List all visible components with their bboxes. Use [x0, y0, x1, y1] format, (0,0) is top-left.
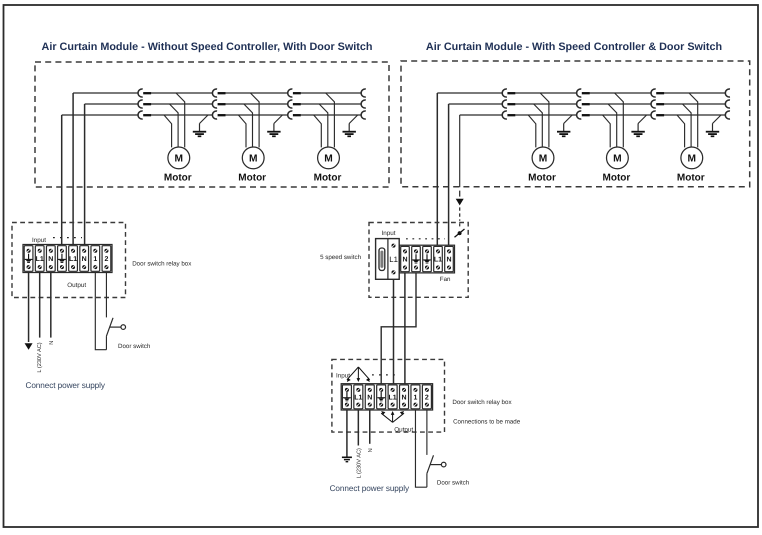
svg-text:Connect power supply: Connect power supply	[330, 484, 410, 493]
wire motor N	[319, 104, 328, 147]
svg-text:M: M	[539, 154, 548, 165]
connector	[502, 89, 515, 97]
connector	[212, 100, 225, 108]
terminal block fan	[400, 245, 455, 273]
5 speed switch block	[376, 239, 400, 280]
connector	[502, 111, 515, 119]
wire door-switch 2 (right)	[426, 410, 428, 455]
svg-text:M: M	[249, 154, 258, 165]
wire bus E right	[460, 114, 503, 116]
motor M	[168, 147, 190, 169]
connector	[725, 100, 730, 108]
wire motor L	[326, 93, 335, 147]
motor M	[242, 147, 264, 169]
connector	[212, 111, 225, 119]
svg-text:Motor: Motor	[677, 172, 705, 183]
wire bus L1 right	[437, 92, 502, 94]
svg-text:L1: L1	[69, 256, 77, 263]
connector	[651, 111, 664, 119]
svg-text:Input: Input	[32, 237, 46, 244]
connector	[651, 100, 664, 108]
wire motor E	[238, 115, 246, 147]
connector	[725, 89, 730, 97]
connector	[288, 100, 301, 108]
dotted divider right relay	[372, 374, 398, 376]
svg-text:L1: L1	[389, 394, 397, 401]
wire E speed to relay (jog)	[381, 273, 416, 384]
module box right (dashed)	[401, 61, 750, 187]
wire motor E	[164, 115, 172, 147]
svg-text:N: N	[446, 257, 451, 264]
svg-text:Motor: Motor	[603, 172, 631, 183]
wire door-switch 1 (left)	[95, 273, 106, 350]
connector	[361, 111, 366, 119]
connector	[361, 89, 366, 97]
wire N down to speed controller	[448, 104, 450, 245]
dotted divider	[53, 237, 82, 239]
wire door-switch 2 (left)	[105, 273, 107, 318]
wire E down to relay box	[61, 115, 63, 245]
ground	[706, 124, 719, 137]
dashed stub inside speed box	[459, 223, 461, 228]
wire motor L	[689, 93, 698, 147]
svg-text:Air Curtain Module - With Spee: Air Curtain Module - With Speed Controll…	[426, 41, 722, 53]
wire N speed to relay	[404, 273, 406, 384]
svg-text:5 speed switch: 5 speed switch	[320, 254, 361, 261]
svg-text:L (230V AC): L (230V AC)	[36, 342, 43, 372]
module box left (dashed)	[35, 62, 389, 187]
connection arrows input	[347, 367, 370, 382]
wire motor N	[534, 104, 543, 147]
svg-text:L1: L1	[354, 394, 362, 401]
ground	[343, 124, 356, 137]
svg-text:L1: L1	[36, 256, 44, 263]
svg-text:Connections to be made: Connections to be made	[453, 418, 521, 425]
svg-text:Motor: Motor	[164, 172, 192, 183]
ground tap wire	[200, 115, 209, 124]
svg-text:Connect power supply: Connect power supply	[26, 381, 106, 390]
wire motor N	[683, 104, 692, 147]
motor M	[318, 147, 340, 169]
connection arrows output	[381, 411, 404, 422]
wire motor E	[603, 115, 611, 147]
connector	[138, 100, 151, 108]
wire N supply	[50, 273, 52, 338]
door switch left	[106, 318, 125, 350]
wire bus N left	[85, 103, 139, 105]
connector	[138, 111, 151, 119]
wire E down (to be connected)	[459, 115, 461, 187]
wire earth supply right	[346, 410, 348, 457]
svg-text:Output: Output	[394, 427, 413, 434]
connector	[502, 100, 515, 108]
wire door-switch 1 (right)	[415, 410, 426, 487]
svg-text:M: M	[175, 154, 184, 165]
ground	[267, 124, 280, 137]
svg-text:Motor: Motor	[528, 172, 556, 183]
svg-text:Motor: Motor	[238, 172, 266, 183]
svg-text:N: N	[49, 341, 55, 345]
ground	[193, 124, 206, 137]
arrow power supply earth	[25, 343, 33, 350]
wire motor E	[528, 115, 536, 147]
svg-text:Input: Input	[382, 230, 396, 237]
terminal block left relay	[23, 245, 112, 273]
svg-text:L1: L1	[389, 255, 398, 264]
svg-text:Air Curtain Module - Without S: Air Curtain Module - Without Speed Contr…	[42, 41, 373, 53]
wire N down to relay box	[84, 104, 86, 245]
connector	[212, 89, 225, 97]
motor M	[607, 147, 629, 169]
terminal block right relay	[341, 384, 432, 410]
svg-text:1: 1	[93, 256, 97, 263]
speed controller box (dashed)	[369, 223, 468, 298]
wire N supply right	[369, 410, 371, 444]
ground	[631, 124, 644, 137]
ground tap wire	[274, 115, 283, 124]
svg-text:Door switch: Door switch	[437, 480, 470, 487]
connector	[577, 89, 590, 97]
annotation arrow connection	[455, 229, 465, 237]
door switch relay box right (dashed)	[332, 359, 445, 432]
svg-text:N: N	[367, 394, 372, 401]
dotted divider speed	[406, 238, 445, 240]
dash E below box	[459, 191, 461, 197]
ground tap wire	[713, 115, 722, 124]
connector	[577, 111, 590, 119]
connector	[651, 89, 664, 97]
wire motor N	[170, 104, 179, 147]
wire motor N	[608, 104, 617, 147]
motor M	[681, 147, 703, 169]
svg-text:N: N	[368, 448, 374, 452]
svg-text:M: M	[613, 154, 622, 165]
wire motor E	[314, 115, 322, 147]
wire earth supply	[28, 273, 30, 343]
door switch relay box left (dashed)	[12, 223, 126, 298]
wire L supply	[39, 273, 41, 338]
svg-text:N: N	[82, 256, 87, 263]
svg-text:2: 2	[104, 256, 108, 263]
wire motor L	[176, 93, 185, 147]
connector	[288, 111, 301, 119]
door switch right	[427, 455, 446, 487]
dashed continuation E	[459, 207, 461, 220]
wire motor L	[250, 93, 259, 147]
svg-text:Fan: Fan	[440, 276, 451, 283]
ground power supply	[342, 457, 352, 461]
svg-text:1: 1	[414, 394, 418, 401]
wire motor E	[677, 115, 685, 147]
wire bus E left	[62, 114, 138, 116]
connector	[725, 111, 730, 119]
svg-text:M: M	[688, 154, 697, 165]
ground tap wire	[349, 115, 358, 124]
ground tap wire	[564, 115, 573, 124]
svg-text:Door switch relay box: Door switch relay box	[452, 399, 512, 406]
wire motor L	[615, 93, 624, 147]
connector	[577, 100, 590, 108]
connector	[138, 89, 151, 97]
wire L1 speed to relay	[393, 279, 395, 383]
ground tap wire	[638, 115, 647, 124]
wire L supply right	[357, 410, 359, 446]
connector	[361, 100, 366, 108]
svg-text:L (230V AC): L (230V AC)	[355, 448, 362, 478]
svg-text:Door switch: Door switch	[118, 343, 151, 350]
wire bus N right	[449, 103, 503, 105]
wire L1 down to speed controller	[436, 93, 438, 245]
svg-text:Door switch relay box: Door switch relay box	[132, 260, 192, 267]
svg-text:2: 2	[425, 394, 429, 401]
wire bus L1 left	[73, 92, 138, 94]
svg-text:N: N	[402, 257, 407, 264]
svg-text:Motor: Motor	[314, 172, 342, 183]
svg-text:L1: L1	[434, 257, 442, 264]
svg-text:Output: Output	[67, 282, 86, 289]
wire motor N	[244, 104, 253, 147]
wire motor L	[540, 93, 549, 147]
arrow E end	[456, 199, 464, 206]
ground	[557, 124, 570, 137]
connector	[288, 89, 301, 97]
svg-text:N: N	[48, 256, 53, 263]
svg-text:N: N	[402, 394, 407, 401]
svg-text:M: M	[324, 154, 333, 165]
motor M	[532, 147, 554, 169]
wire L1 down to relay box	[72, 93, 74, 245]
